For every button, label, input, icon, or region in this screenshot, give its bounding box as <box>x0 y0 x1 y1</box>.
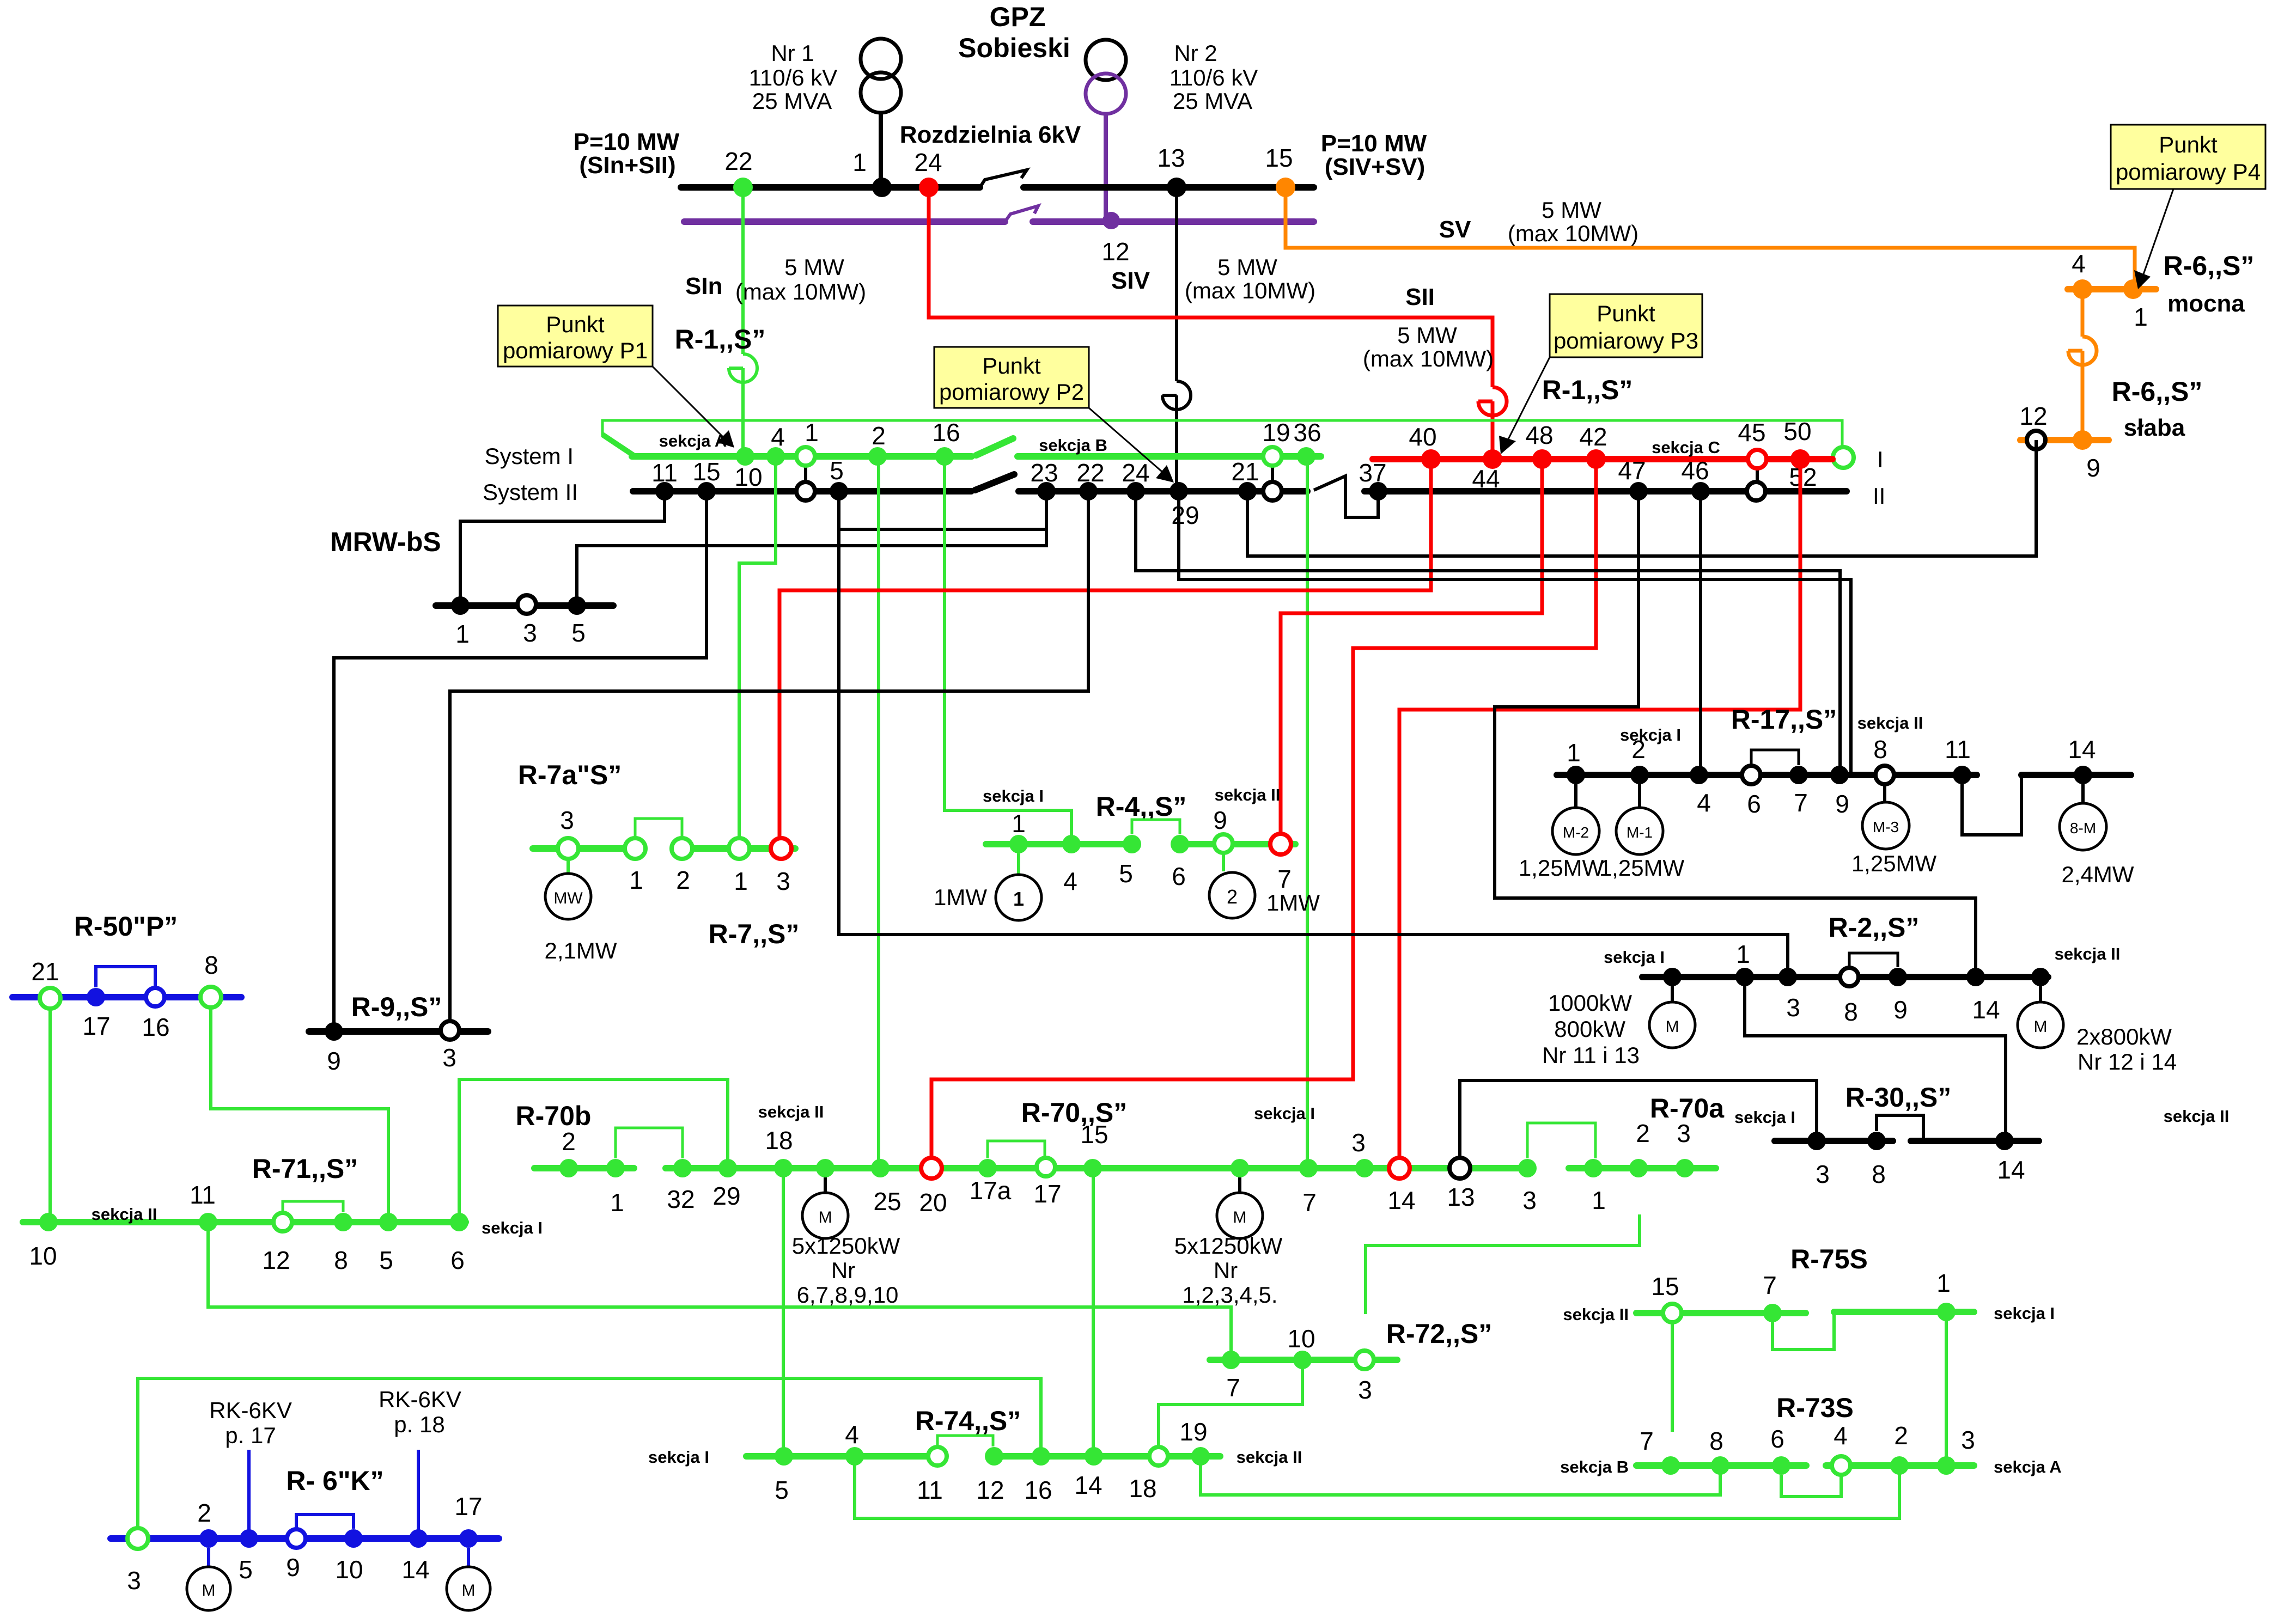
node 8 R-73 <box>1711 1456 1729 1475</box>
svg-text:SIn: SIn <box>685 273 722 300</box>
Punkt pomiarowy P1 box <box>498 306 734 448</box>
svg-text:(SIV+SV): (SIV+SV) <box>1325 154 1426 180</box>
node 7 R-72 <box>1222 1351 1240 1369</box>
svg-text:P=10 MW: P=10 MW <box>574 129 680 155</box>
Punkt pomiarowy P4 box <box>2111 125 2265 289</box>
svg-text:R-9,,S”: R-9,,S” <box>351 992 442 1022</box>
svg-text:1MW: 1MW <box>1266 890 1320 915</box>
switch blade System II left <box>975 474 1014 490</box>
node 40 sekcja C <box>1421 449 1441 469</box>
node M-stem R-70 sekcja II + motor <box>816 1159 835 1177</box>
svg-text:42: 42 <box>1579 423 1607 451</box>
svg-text:2: 2 <box>562 1127 576 1156</box>
svg-text:System II: System II <box>483 479 578 505</box>
svg-text:12: 12 <box>262 1246 290 1274</box>
node 6 R-17 (open) <box>1742 766 1761 784</box>
stem + MW generator circle R-7a <box>567 859 570 874</box>
wire R-74 node 4 to R-73 node 2 <box>855 1456 1899 1518</box>
svg-text:M: M <box>2034 1018 2048 1036</box>
svg-text:sekcja B: sekcja B <box>1560 1457 1629 1476</box>
R-6 mocna busbar <box>2068 286 2156 292</box>
node 22 (green) on top bus <box>733 178 753 197</box>
node 8 R-2 (open) <box>1840 968 1859 986</box>
R-70b busbar left <box>534 1165 634 1171</box>
svg-text:47: 47 <box>1618 456 1646 485</box>
wire R-50 node 8 to R-71 node 5 <box>211 1008 388 1222</box>
node 10 System I <box>736 447 754 466</box>
R-9 busbar <box>309 1028 488 1035</box>
node 42 sekcja C <box>1586 449 1606 469</box>
node 14 R-74 <box>1085 1447 1103 1466</box>
svg-text:sekcja I: sekcja I <box>648 1448 709 1467</box>
R-30 busbar sekcja II <box>1911 1138 2039 1144</box>
node 11 R-17 <box>1953 766 1971 784</box>
node 45-pair System II (open) with stem <box>1756 468 1759 484</box>
node 1 R-4 <box>1009 835 1028 853</box>
svg-text:2: 2 <box>1636 1119 1650 1147</box>
svg-text:1: 1 <box>610 1188 624 1217</box>
svg-text:36: 36 <box>1293 418 1321 447</box>
svg-text:sekcja II: sekcja II <box>1236 1448 1302 1467</box>
node 4 R-17 <box>1690 766 1708 784</box>
R-17 right bus segment <box>2021 772 2131 778</box>
node 11 System II <box>655 482 674 500</box>
svg-text:1: 1 <box>1012 809 1026 838</box>
svg-text:8: 8 <box>1709 1427 1723 1455</box>
node 1 R-2 <box>1735 968 1754 986</box>
svg-text:14: 14 <box>401 1555 429 1584</box>
transformer Nr 2 110/6 kV 25 MVA <box>1086 40 1258 218</box>
MRW busbar <box>436 602 613 609</box>
svg-text:Nr: Nr <box>831 1257 855 1283</box>
svg-text:7: 7 <box>1640 1427 1654 1455</box>
node 1 R-70a <box>1584 1159 1603 1177</box>
wire green node 16 to R-4 node 4 <box>945 456 1071 844</box>
svg-text:45: 45 <box>1738 418 1765 447</box>
svg-text:22: 22 <box>724 147 752 175</box>
svg-text:1: 1 <box>1592 1186 1606 1214</box>
svg-text:p. 18: p. 18 <box>394 1412 444 1437</box>
svg-text:R-4,,S”: R-4,,S” <box>1096 791 1187 822</box>
R-50 busbar <box>13 994 241 1000</box>
jumper switch R-4 5-6 <box>1132 820 1180 834</box>
node 19-pair System II (open) <box>1263 482 1282 500</box>
wire System II node 11 to MRW node 1 <box>460 491 665 606</box>
wire R-71 node 11 to R-72 node 7 <box>208 1222 1231 1360</box>
node 1 R-17 <box>1567 766 1585 784</box>
svg-text:16: 16 <box>932 418 960 447</box>
svg-text:1MW: 1MW <box>934 884 987 910</box>
purple busbar <box>684 218 1005 225</box>
node 4 R-74 <box>845 1447 864 1466</box>
node 17 R-6K <box>459 1529 478 1548</box>
R-71 busbar <box>23 1219 466 1225</box>
svg-text:10: 10 <box>734 463 762 491</box>
svg-text:7: 7 <box>1794 789 1808 817</box>
svg-text:23: 23 <box>1030 459 1058 487</box>
thin green tie line above System I <box>602 420 1842 445</box>
svg-text:16: 16 <box>142 1013 169 1041</box>
svg-text:R-1,,S”: R-1,,S” <box>675 324 766 355</box>
svg-text:(max 10MW): (max 10MW) <box>1185 278 1315 303</box>
svg-text:8: 8 <box>334 1246 348 1274</box>
svg-text:21: 21 <box>1231 457 1259 486</box>
wire black System II node 46 to R-17 node 4 <box>1699 491 1702 775</box>
node 2 R-17 <box>1630 766 1649 784</box>
node 13 R-70 (open black) <box>1449 1158 1470 1179</box>
svg-text:2,4MW: 2,4MW <box>2061 862 2134 887</box>
svg-text:10: 10 <box>335 1555 363 1584</box>
svg-text:M: M <box>462 1582 476 1599</box>
svg-text:9: 9 <box>1835 790 1849 818</box>
svg-text:3: 3 <box>442 1043 456 1072</box>
node 47 System II <box>1629 482 1648 500</box>
node 6 R-73 <box>1772 1456 1790 1475</box>
Punkt pomiarowy P2 box <box>934 347 1174 483</box>
node 7 R-75 <box>1763 1304 1782 1322</box>
svg-text:SV: SV <box>1439 216 1471 243</box>
svg-text:14: 14 <box>1997 1156 2025 1184</box>
svg-text:40: 40 <box>1409 423 1436 451</box>
svg-text:6: 6 <box>450 1246 465 1274</box>
svg-text:5: 5 <box>775 1476 789 1504</box>
node 3 R-9 (open) <box>441 1021 459 1040</box>
node M-stem R-70 sekcja I + motor <box>1231 1159 1249 1177</box>
node 15 R-70 <box>1083 1159 1102 1177</box>
svg-text:Rozdzielnia 6kV: Rozdzielnia 6kV <box>900 121 1081 148</box>
node 21 System II <box>1238 482 1257 500</box>
wire System II node 23 to MRW node 5 <box>577 491 1046 606</box>
node 16 R-50 (open blue) <box>146 988 165 1006</box>
svg-text:1,25MW: 1,25MW <box>1519 855 1604 881</box>
node 8 R-17 (open) <box>1875 766 1894 784</box>
node 10 R-72 <box>1293 1351 1312 1369</box>
stem + motor M-1 <box>1638 784 1641 808</box>
node 3 R-2 <box>1778 968 1797 986</box>
node 9 R-4 (open) <box>1214 834 1233 853</box>
R-4 busbar <box>986 841 1132 847</box>
svg-text:pomiarowy P3: pomiarowy P3 <box>1554 328 1698 353</box>
svg-text:2: 2 <box>676 866 690 894</box>
node 1 MRW <box>451 596 470 615</box>
node 25 R-70 <box>871 1159 890 1177</box>
svg-text:14: 14 <box>2068 735 2096 764</box>
node 3 R-30 <box>1807 1132 1826 1150</box>
jumper R-30 8 to sekcja II <box>1877 1115 1923 1141</box>
svg-text:sekcja II: sekcja II <box>2164 1107 2230 1126</box>
svg-text:słaba: słaba <box>2124 414 2185 441</box>
svg-text:2x800kW: 2x800kW <box>2076 1024 2172 1049</box>
node 17 R-50 <box>87 988 105 1006</box>
R-30 busbar sekcja I <box>1775 1138 1893 1144</box>
stem + generator circle 1 <box>1017 853 1020 875</box>
svg-text:1: 1 <box>805 418 819 447</box>
node 8 R-30 <box>1867 1132 1886 1150</box>
svg-text:SIV: SIV <box>1111 267 1150 294</box>
svg-text:M: M <box>1666 1018 1679 1036</box>
svg-text:3: 3 <box>776 867 790 895</box>
node 19 System I (open) with stem <box>1271 466 1274 483</box>
R-72 busbar <box>1210 1357 1397 1363</box>
node 16 R-74 <box>1032 1447 1050 1466</box>
svg-text:1: 1 <box>1936 1269 1951 1297</box>
svg-text:6: 6 <box>1747 790 1761 818</box>
svg-text:pomiarowy P1: pomiarowy P1 <box>503 338 648 363</box>
svg-text:9: 9 <box>1893 996 1908 1024</box>
node 3 R-7 (open red) <box>771 838 791 859</box>
svg-text:sekcja I: sekcja I <box>1734 1108 1795 1127</box>
node 1 on top bus <box>872 178 892 197</box>
wire black System II node 15 to R-9 node 9 <box>334 491 706 1031</box>
node 2 R-7a (open) <box>672 838 692 859</box>
svg-text:5x1250kW: 5x1250kW <box>1174 1233 1283 1259</box>
R-75 busbar right <box>1834 1309 1974 1315</box>
node 50 sekcja C <box>1790 449 1810 469</box>
node 36 System I <box>1297 447 1315 466</box>
wire R-70a node 2 to R-72 node 3 (stub) <box>1366 1214 1640 1314</box>
jumper switch R-50 17-16 <box>96 967 155 987</box>
svg-text:pomiarowy P2: pomiarowy P2 <box>939 379 1084 405</box>
svg-text:24: 24 <box>1122 459 1149 487</box>
svg-text:50: 50 <box>1783 417 1811 445</box>
node M-stem left R-2 <box>1663 968 1682 986</box>
stem + motor M-3 <box>1883 784 1886 803</box>
node 5 System II <box>830 482 848 500</box>
svg-text:3: 3 <box>1522 1186 1537 1214</box>
svg-text:8: 8 <box>1873 735 1887 764</box>
node 17 R-70 (open) <box>1037 1158 1055 1176</box>
svg-text:M: M <box>819 1208 832 1226</box>
svg-text:Nr 1: Nr 1 <box>771 40 814 66</box>
node 12 (purple) on purple bus <box>1103 212 1120 229</box>
svg-text:7: 7 <box>1226 1373 1240 1402</box>
node 14 R-30 <box>1995 1132 2014 1150</box>
svg-text:2: 2 <box>197 1499 211 1527</box>
node 4 R-73 (open) <box>1832 1456 1850 1475</box>
svg-text:3: 3 <box>1358 1376 1372 1404</box>
svg-text:sekcja A: sekcja A <box>1994 1457 2062 1476</box>
node 46 System II <box>1691 482 1710 500</box>
svg-text:sekcja A: sekcja A <box>659 431 727 450</box>
svg-text:29: 29 <box>1171 501 1199 529</box>
node 4 R-6 mocna <box>2073 279 2092 299</box>
wire green node 4 to R-7 node 1 <box>739 456 776 839</box>
svg-text:14: 14 <box>1387 1186 1415 1214</box>
Punkt pomiarowy P3 box <box>1499 294 1702 454</box>
svg-text:R-2,,S”: R-2,,S” <box>1829 912 1920 943</box>
svg-text:9: 9 <box>327 1047 341 1075</box>
svg-text:R-30,,S”: R-30,,S” <box>1845 1082 1952 1113</box>
R-75 busbar left <box>1636 1310 1806 1316</box>
wire SII (red feeder from node 24 to node 44) <box>929 187 1507 459</box>
svg-text:44: 44 <box>1472 465 1500 493</box>
wire black System II node 5 to R-2 node 3 <box>839 491 1788 977</box>
svg-text:10: 10 <box>29 1242 57 1270</box>
node 9 R-2 <box>1889 968 1907 986</box>
svg-text:Punkt: Punkt <box>2159 132 2218 157</box>
svg-text:4: 4 <box>1697 789 1711 817</box>
node 12 R-74 <box>985 1447 1003 1466</box>
svg-text:48: 48 <box>1525 421 1553 449</box>
svg-text:R-70b: R-70b <box>516 1101 592 1131</box>
svg-text:R-6,,S”: R-6,,S” <box>2164 251 2255 281</box>
svg-text:5 MW: 5 MW <box>1217 254 1277 280</box>
jumper switch R-2 8-9 <box>1849 953 1898 967</box>
label P=10 MW (SIn+SII) <box>574 129 680 179</box>
node 18 R-70 <box>774 1159 793 1177</box>
node 2 System I <box>868 447 887 466</box>
svg-text:3: 3 <box>1961 1426 1975 1454</box>
svg-text:17a: 17a <box>970 1176 1012 1205</box>
svg-text:1: 1 <box>1567 738 1581 767</box>
svg-text:12: 12 <box>1101 237 1129 266</box>
stem + motor 8-M <box>2081 784 2085 804</box>
node 9 R-6 slaba <box>2073 430 2092 450</box>
jumper switch R-7a 1-2 <box>635 819 682 838</box>
svg-text:1000kW: 1000kW <box>1548 990 1632 1016</box>
node 14 R-70 (open red) <box>1389 1158 1410 1179</box>
svg-text:sekcja II: sekcja II <box>2055 944 2121 963</box>
node 1 R-6 mocna <box>2123 279 2143 299</box>
node 8 R-71 <box>334 1213 352 1231</box>
node 48 sekcja C <box>1532 449 1552 469</box>
svg-text:15: 15 <box>1080 1120 1108 1149</box>
svg-text:R-74,,S”: R-74,,S” <box>915 1406 1021 1436</box>
svg-text:10: 10 <box>1287 1324 1315 1353</box>
node 3 R-70 <box>1355 1159 1374 1177</box>
wire short link at y=972 <box>839 528 1046 531</box>
wire R-74 node 16 to R-6K node 3 <box>138 1378 1041 1528</box>
svg-text:12: 12 <box>2019 402 2047 430</box>
wire R-75 node 1 to R-73 node 3 <box>1945 1312 1948 1466</box>
svg-text:1: 1 <box>2134 303 2148 331</box>
switch blade left end of System I <box>602 435 634 455</box>
svg-text:11: 11 <box>190 1181 216 1209</box>
jumper switch R-70a 3-1 <box>1527 1123 1595 1158</box>
svg-text:4: 4 <box>845 1420 859 1449</box>
node 23 System II <box>1037 482 1056 500</box>
jumper switch R-6K 9-10 <box>296 1515 354 1529</box>
svg-text:R-7,,S”: R-7,,S” <box>709 919 800 949</box>
wire black System II node 24 to R-17 node 9 <box>1136 491 1840 775</box>
wire System II node 21 to R-6 slaba node 12 <box>1247 440 2036 556</box>
svg-text:19: 19 <box>1179 1418 1207 1446</box>
node 19 R-74 <box>1191 1447 1210 1466</box>
node M-stem right R-2 <box>2031 968 2050 986</box>
svg-text:R-73S: R-73S <box>1776 1393 1854 1423</box>
node 3 R-6K (green open) <box>127 1528 148 1549</box>
switch blade on purple busbar <box>1005 206 1038 222</box>
node 29 System II <box>1169 482 1188 500</box>
black System II busbar (middle) <box>1019 488 1307 494</box>
node 6 R-71 <box>450 1213 468 1231</box>
node 1 R-70b <box>606 1159 625 1177</box>
svg-text:5x1250kW: 5x1250kW <box>792 1233 900 1259</box>
svg-text:2: 2 <box>1227 886 1238 908</box>
svg-text:M-2: M-2 <box>1563 824 1589 841</box>
svg-text:11: 11 <box>917 1476 943 1504</box>
svg-text:7: 7 <box>1302 1188 1317 1217</box>
jog R-75 7 to sekcja I <box>1772 1312 1834 1350</box>
wire SIV (black feeder from node 13) <box>1162 187 1191 491</box>
svg-text:7: 7 <box>1277 865 1292 893</box>
wire R-74 node 19 to R-73 node 8 <box>1201 1456 1720 1495</box>
svg-text:5: 5 <box>379 1246 393 1274</box>
svg-text:20: 20 <box>919 1188 947 1217</box>
svg-text:Nr 12 i 14: Nr 12 i 14 <box>2078 1049 2177 1074</box>
svg-text:M-3: M-3 <box>1873 819 1899 835</box>
svg-text:15: 15 <box>692 457 720 486</box>
green System I busbar sekcja B <box>1018 453 1321 460</box>
node 44 sekcja C <box>1483 449 1502 469</box>
svg-text:2: 2 <box>1894 1421 1908 1450</box>
node 21 R-50 (green open) <box>40 988 60 1009</box>
svg-text:R-75S: R-75S <box>1790 1244 1868 1274</box>
node 13 on top bus <box>1167 178 1186 197</box>
wire red node 40 to R-7 node 3 <box>779 459 1431 839</box>
node 10 R-6K <box>344 1529 363 1548</box>
svg-text:15: 15 <box>1651 1272 1679 1301</box>
wire RK-6KV p.17 line <box>247 1450 251 1538</box>
svg-text:6: 6 <box>1770 1425 1784 1453</box>
svg-text:sekcja B: sekcja B <box>1039 436 1107 455</box>
svg-text:pomiarowy P4: pomiarowy P4 <box>2116 159 2261 185</box>
svg-text:8: 8 <box>204 951 218 979</box>
node 7 R-17 <box>1789 766 1808 784</box>
svg-text:1: 1 <box>455 620 470 648</box>
R-2 busbar <box>1642 974 2048 980</box>
node 14 R-6K <box>409 1529 428 1548</box>
svg-text:1: 1 <box>852 148 867 176</box>
svg-text:24: 24 <box>914 148 942 176</box>
node 7 R-73 <box>1661 1456 1680 1475</box>
svg-text:2: 2 <box>1631 735 1646 764</box>
R-74 busbar <box>746 1453 937 1460</box>
node 37 System II <box>1369 482 1387 500</box>
svg-text:R-6,,S”: R-6,,S” <box>2112 376 2203 407</box>
svg-text:MW: MW <box>553 889 583 907</box>
node 3 R-72 (open) <box>1355 1351 1374 1369</box>
node 16 System I <box>935 447 954 466</box>
svg-text:19: 19 <box>1262 418 1290 447</box>
jog R-73 6-4 below bus <box>1781 1475 1841 1497</box>
R-73 busbar <box>1636 1462 1806 1469</box>
jumper switch R-74 11-12 <box>937 1436 993 1446</box>
R-6K busbar <box>111 1535 499 1542</box>
node 45 sekcja C (open red) <box>1748 450 1767 468</box>
wire R-72 node 10 to R-74 node 18 <box>1159 1360 1302 1456</box>
node 9 R-17 <box>1830 766 1849 784</box>
node 3 R-70a left <box>1518 1159 1537 1177</box>
node 22 System II <box>1079 482 1098 500</box>
node 32 R-70b <box>673 1159 692 1177</box>
wire green node 36 to R-70 node 7 <box>1306 456 1309 1168</box>
wire SV (orange from node 15 to R-6 mocna) <box>1286 187 2135 289</box>
svg-text:R-71,,S”: R-71,,S” <box>252 1153 358 1184</box>
node 17a R-70 <box>978 1159 997 1177</box>
svg-text:4: 4 <box>2072 249 2086 278</box>
svg-text:18: 18 <box>765 1126 793 1155</box>
node 14 R-2 <box>1966 968 1985 986</box>
node 18 R-74 (open) <box>1149 1447 1168 1466</box>
svg-text:17: 17 <box>454 1492 482 1521</box>
svg-text:25 MVA: 25 MVA <box>1173 88 1252 114</box>
svg-text:GPZ: GPZ <box>990 2 1046 32</box>
svg-text:5: 5 <box>571 619 586 647</box>
svg-text:21: 21 <box>31 957 59 986</box>
jumper switch R-17 6-7 <box>1751 750 1799 765</box>
svg-text:22: 22 <box>1076 459 1104 487</box>
